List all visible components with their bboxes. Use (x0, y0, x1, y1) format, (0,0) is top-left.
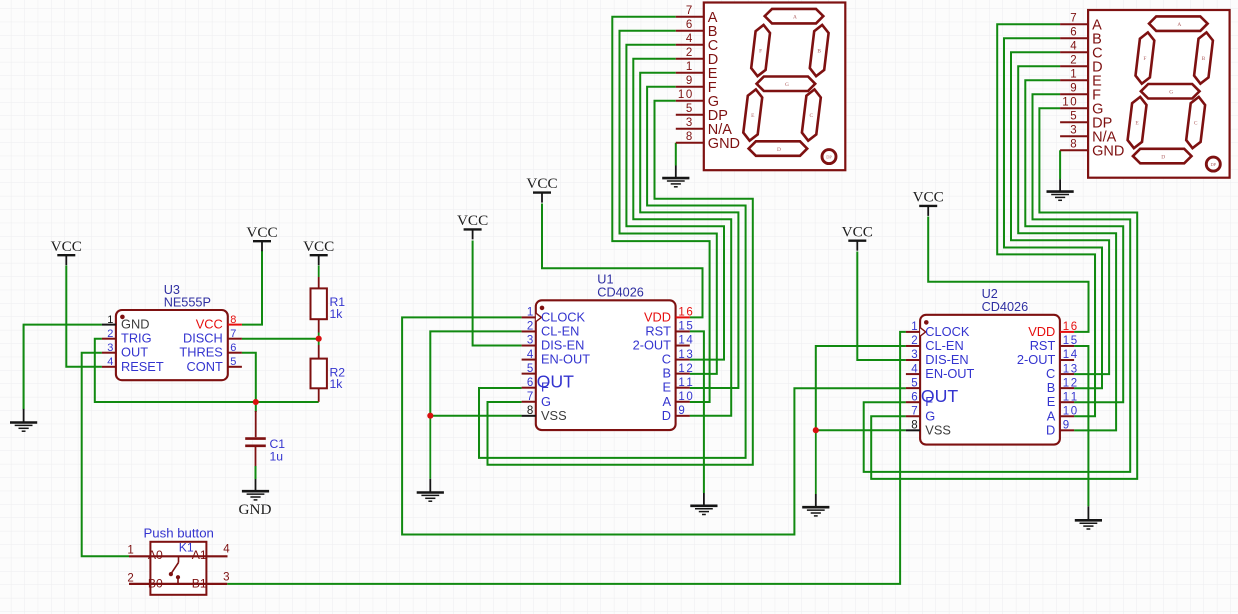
DS1 segment D (749, 141, 808, 156)
wire net TRIG: U3 pin2 to R2 bottom node (95, 339, 319, 402)
svg-text:1: 1 (1063, 377, 1069, 389)
svg-text:7: 7 (230, 328, 236, 340)
wire net OUT: U3 pin3 to push button K1 pin1 (82, 353, 129, 557)
svg-text:2: 2 (686, 47, 692, 59)
U1 right pin stubs (pins 16-9) (676, 317, 690, 415)
svg-text:1: 1 (678, 321, 684, 333)
DS2 segment D (1133, 149, 1192, 164)
svg-text:3: 3 (1070, 125, 1076, 137)
IC U1 CD4026 counter body (536, 300, 676, 430)
DS2 segment E (1128, 97, 1147, 148)
power flag VCC (to U1 VDD) (526, 175, 557, 202)
svg-text:C: C (810, 113, 814, 119)
svg-text:RST: RST (645, 323, 671, 338)
svg-text:6: 6 (1071, 321, 1077, 333)
wire net GND: U2 pin15 RST down to ground (1074, 346, 1088, 506)
svg-text:3: 3 (686, 349, 692, 361)
DS1 pin numbers (678, 5, 693, 143)
wire segment E: U2 pin11 to display DS2 pin E (1025, 80, 1123, 402)
svg-text:B0: B0 (148, 576, 163, 590)
wire net VCC: VCC flag to U3 pin4 RESET (66, 266, 102, 367)
svg-text:5: 5 (686, 321, 692, 333)
wire net VCC: VCC flag to U1 pin16 VDD (542, 204, 703, 318)
U1 pin-1 marker dot (540, 306, 545, 311)
wire net DISCH: U3 pin7 to R1/R2 junction (242, 338, 319, 340)
U1 left pin stubs (pins 1-8) (522, 317, 536, 415)
svg-text:1: 1 (1063, 335, 1069, 347)
DS2 pin stubs (1060, 24, 1088, 150)
svg-text:5: 5 (1071, 335, 1077, 347)
wire net GND: U1 pin8 VSS to ground node (430, 415, 521, 417)
wire net GND: display DS1 pin GND to ground (675, 143, 677, 166)
DS2 segment A (1149, 16, 1208, 31)
svg-text:D: D (777, 147, 781, 153)
DS1 segment C (802, 89, 821, 140)
wire segment G: U2 pin7 to display DS2 pin G (871, 108, 1137, 479)
svg-text:VCC: VCC (526, 175, 557, 192)
DS2 decimal point DP (1206, 157, 1220, 171)
wire segment C: U1 pin13 to display DS1 pin C (626, 45, 724, 360)
ground GND below C1 (242, 479, 269, 500)
svg-text:1: 1 (1063, 405, 1069, 417)
svg-text:THRES: THRES (179, 345, 222, 360)
svg-text:8: 8 (686, 131, 692, 143)
svg-text:VDD: VDD (644, 309, 671, 324)
svg-text:OUT: OUT (121, 345, 148, 360)
wire segment C: U2 pin13 to display DS2 pin C (1011, 52, 1109, 374)
svg-text:2: 2 (1071, 377, 1077, 389)
svg-text:DP: DP (826, 155, 832, 160)
svg-text:6: 6 (911, 391, 917, 403)
svg-text:0: 0 (1070, 97, 1076, 109)
svg-text:1: 1 (1063, 321, 1069, 333)
svg-text:4: 4 (686, 33, 693, 45)
DS1 pin stubs (676, 17, 704, 143)
svg-text:F: F (759, 49, 762, 55)
svg-text:7: 7 (1070, 13, 1076, 25)
svg-text:E: E (1047, 394, 1056, 409)
svg-text:A1: A1 (192, 548, 207, 562)
ground GND at U2 VSS (802, 430, 829, 516)
svg-text:4: 4 (223, 543, 230, 555)
junction node: TRIG/THRES/R2/C1 (253, 399, 259, 405)
U2 pin numbers (911, 321, 1078, 431)
svg-text:D: D (1046, 422, 1055, 437)
ground GND at U1 VSS (417, 416, 444, 502)
ground GND at U3 pin1 (10, 325, 37, 432)
svg-text:2: 2 (1070, 55, 1076, 67)
U2 left pin stubs (pins 1-8) (906, 332, 920, 430)
svg-text:1: 1 (527, 307, 533, 319)
svg-text:4: 4 (911, 363, 918, 375)
svg-text:7: 7 (527, 391, 533, 403)
svg-text:3: 3 (911, 349, 917, 361)
svg-text:1: 1 (911, 321, 917, 333)
wire net GND: U3 pin1 to ground (24, 325, 102, 410)
wire net GND: display DS2 pin GND to ground (1059, 150, 1061, 179)
U3 pin labels (121, 317, 223, 374)
U2 clock input triangle (pin 1) (920, 328, 926, 337)
wire segment E: U1 pin11 to display DS1 pin E (640, 73, 738, 388)
svg-text:9: 9 (678, 405, 684, 417)
svg-text:0: 0 (686, 89, 692, 101)
svg-text:A: A (1177, 22, 1181, 28)
svg-text:3: 3 (1071, 363, 1077, 375)
ground GND at U1 RST (690, 493, 717, 515)
svg-text:1: 1 (678, 377, 684, 389)
svg-text:4: 4 (527, 349, 534, 361)
svg-text:EN-OUT: EN-OUT (925, 366, 974, 381)
svg-text:VDD: VDD (1028, 324, 1055, 339)
svg-text:1: 1 (686, 377, 692, 389)
svg-text:1k: 1k (330, 377, 344, 391)
wire segment D: U2 pin9 to display DS2 pin D (1018, 66, 1116, 430)
DS1 segment E (743, 89, 762, 140)
svg-text:2: 2 (686, 363, 692, 375)
wire net GND: U2 pin2 CL-EN down to VSS node (816, 346, 906, 430)
U2 pin labels (925, 324, 1055, 438)
svg-text:2: 2 (527, 321, 533, 333)
DS2 segment G (1141, 84, 1200, 99)
ground GND at U2 RST (1075, 506, 1102, 529)
U2 right pin stubs (pins 16-9) (1060, 332, 1074, 430)
svg-text:1: 1 (1062, 97, 1068, 109)
svg-text:TRIG: TRIG (121, 331, 152, 346)
svg-text:3: 3 (527, 335, 533, 347)
svg-text:VCC: VCC (51, 238, 82, 255)
svg-text:G: G (925, 408, 935, 423)
svg-text:1: 1 (686, 61, 692, 73)
svg-text:C: C (1194, 121, 1198, 127)
svg-text:B: B (1047, 380, 1056, 395)
svg-text:CL-EN: CL-EN (925, 338, 963, 353)
svg-text:G: G (1169, 90, 1173, 96)
svg-text:GND: GND (239, 501, 272, 518)
U1 pin labels (541, 309, 671, 423)
K1 row A contact line (pins 1-4) (129, 555, 228, 557)
svg-text:1: 1 (107, 314, 113, 326)
svg-text:6: 6 (1070, 27, 1076, 39)
svg-text:VCC: VCC (842, 223, 873, 240)
svg-text:VCC: VCC (196, 317, 223, 332)
wire segment G: U1 pin7 to display DS1 pin G (488, 101, 753, 465)
svg-text:4: 4 (1070, 41, 1077, 53)
svg-text:1: 1 (1063, 349, 1069, 361)
svg-text:5: 5 (230, 356, 236, 368)
svg-text:3: 3 (686, 117, 692, 129)
K1 pin numbers (127, 543, 230, 584)
svg-text:8: 8 (911, 420, 917, 432)
svg-text:6: 6 (686, 307, 692, 319)
svg-text:RESET: RESET (121, 359, 164, 374)
wire segment F: U1 pin6 to display DS1 pin F (479, 87, 746, 458)
DS2 segment C (1186, 97, 1205, 148)
svg-text:9: 9 (1063, 420, 1069, 432)
svg-text:U2: U2 (982, 287, 998, 301)
svg-text:1: 1 (1063, 391, 1069, 403)
svg-text:C: C (662, 352, 671, 367)
K1 pin labels A0 A1 B0 B1 (148, 548, 207, 590)
svg-text:CONT: CONT (187, 359, 223, 374)
power flag VCC (to U2 VDD) (913, 189, 944, 216)
IC U2 CD4026 counter body (920, 315, 1060, 445)
svg-text:CL-EN: CL-EN (541, 323, 579, 338)
svg-text:D: D (662, 408, 671, 423)
U2 pin-1 marker dot (924, 320, 929, 325)
svg-text:2: 2 (107, 328, 113, 340)
svg-text:0: 0 (1071, 405, 1077, 417)
svg-text:VCC: VCC (457, 212, 488, 229)
svg-text:6: 6 (686, 19, 692, 31)
svg-text:8: 8 (230, 314, 236, 326)
wire net TRIG/THRES node to C1 top (255, 402, 257, 412)
svg-text:A: A (1047, 408, 1056, 423)
svg-text:A: A (662, 394, 671, 409)
resistor R2 leads (318, 339, 320, 402)
svg-text:1: 1 (678, 335, 684, 347)
wire net GND: U2 pin8 VSS to ground node (816, 429, 906, 431)
svg-text:OUT: OUT (537, 371, 575, 391)
DS1 segment B (810, 25, 829, 76)
svg-text:2: 2 (911, 335, 917, 347)
wire net GND: U1 pin15 RST down to ground (690, 331, 704, 493)
wire net VCC: VCC flag to U2 pin16 VDD (928, 217, 1088, 332)
wire net CLK1: U1 pin1 CLOCK to U2 pin5 OUT (carry) (402, 317, 906, 534)
svg-text:CD4026: CD4026 (982, 300, 1029, 314)
wire net VCC: U2 pin3 DIS-EN to VCC flag (857, 252, 906, 361)
svg-text:GND: GND (121, 317, 149, 332)
svg-text:NE555P: NE555P (164, 296, 211, 310)
svg-text:B: B (662, 366, 671, 381)
U3 left pin stubs (1-4) (102, 325, 116, 367)
svg-text:2-OUT: 2-OUT (1017, 352, 1056, 367)
ground GND at display DS2 (1047, 179, 1074, 200)
svg-text:G: G (785, 82, 789, 88)
svg-text:F: F (1143, 56, 1146, 62)
svg-text:3: 3 (223, 572, 229, 584)
svg-text:VCC: VCC (303, 238, 334, 255)
svg-text:5: 5 (911, 377, 917, 389)
DS1 segment A (765, 9, 824, 24)
svg-text:DISCH: DISCH (183, 331, 223, 346)
svg-text:4: 4 (686, 335, 693, 347)
U3 pin numbers (107, 314, 236, 368)
svg-text:OUT: OUT (921, 386, 959, 406)
svg-text:Push button: Push button (144, 526, 214, 541)
IC U3 NE555P body (116, 310, 228, 380)
svg-text:5: 5 (1070, 111, 1076, 123)
U1 pin numbers (527, 307, 694, 417)
svg-text:5: 5 (527, 363, 533, 375)
svg-text:1: 1 (678, 363, 684, 375)
svg-text:4: 4 (107, 356, 113, 368)
svg-text:9: 9 (686, 75, 692, 87)
svg-text:6: 6 (230, 342, 236, 354)
DS1 decimal point DP (822, 150, 836, 164)
wire net THRES: U3 pin6 down to node (242, 353, 256, 402)
svg-text:1: 1 (1063, 363, 1069, 375)
svg-text:DIS-EN: DIS-EN (925, 352, 968, 367)
wire segment F: U2 pin6 to display DS2 pin F (864, 94, 1130, 472)
power flag VCC (to U3 pin8) (246, 224, 277, 251)
power flag VCC (to U3 RESET) (51, 238, 82, 265)
U3 right pin stubs (8-5) (228, 325, 242, 367)
svg-text:GND: GND (708, 136, 740, 152)
svg-text:7: 7 (686, 5, 692, 17)
svg-text:C: C (1046, 366, 1055, 381)
svg-text:K1: K1 (179, 540, 194, 554)
K1 row B contact line (pins 2-3) (129, 583, 227, 585)
power flag VCC (to R1) (303, 238, 334, 265)
DS1 segment F (751, 25, 770, 76)
resistor R2 body (311, 359, 327, 389)
svg-text:6: 6 (527, 377, 533, 389)
svg-text:G: G (541, 394, 551, 409)
svg-text:1k: 1k (330, 307, 344, 321)
7-segment display DS2 body (1088, 10, 1230, 178)
wire net GND: U1 pin2 CL-EN down to VSS node (430, 331, 521, 415)
DS2 segment F (1136, 32, 1155, 83)
svg-text:2-OUT: 2-OUT (633, 338, 672, 353)
svg-text:1: 1 (1070, 69, 1076, 81)
svg-text:RST: RST (1030, 338, 1056, 353)
wire segment A: U2 pin10 to display DS2 pin A (997, 24, 1095, 416)
wire segment D: U1 pin9 to display DS1 pin D (633, 59, 731, 416)
svg-text:DIS-EN: DIS-EN (541, 338, 584, 353)
svg-text:1: 1 (127, 544, 133, 556)
svg-text:U1: U1 (597, 273, 613, 287)
svg-text:D: D (1161, 154, 1165, 160)
DS1 segment G (757, 77, 816, 92)
7-segment display DS1 body (704, 3, 846, 171)
svg-text:A0: A0 (148, 548, 163, 562)
svg-text:B: B (1202, 56, 1206, 62)
svg-text:1: 1 (678, 89, 684, 101)
U1 clock input triangle (pin 1) (536, 313, 542, 322)
wire net C1 bottom to ground (255, 466, 257, 479)
svg-text:VSS: VSS (925, 423, 951, 438)
ground GND at display DS1 (662, 166, 689, 187)
svg-text:E: E (662, 380, 671, 395)
svg-text:VCC: VCC (913, 189, 944, 206)
svg-text:1: 1 (678, 307, 684, 319)
push button K1 body (150, 542, 206, 595)
svg-text:A: A (793, 14, 797, 20)
capacitor C1 plates (245, 439, 266, 446)
svg-text:3: 3 (107, 342, 113, 354)
power flag VCC (to U2 DIS-EN) (842, 223, 873, 250)
DS1 pin labels (708, 10, 740, 152)
svg-text:5: 5 (686, 103, 692, 115)
svg-text:GND: GND (1092, 143, 1124, 159)
wire segment A: U1 pin10 to display DS1 pin A (612, 17, 709, 402)
svg-text:B1: B1 (192, 576, 207, 590)
svg-text:4: 4 (1071, 349, 1078, 361)
svg-text:8: 8 (527, 405, 533, 417)
svg-text:9: 9 (1070, 83, 1076, 95)
DS2 pin labels (1092, 17, 1124, 159)
svg-text:1: 1 (1071, 391, 1077, 403)
wire net BTN: K1 pin3 to U2 pin1 CLOCK (227, 332, 906, 584)
junction node: U2 VSS/CL-EN/ground (813, 427, 819, 433)
resistor R1 body (311, 288, 327, 319)
junction node: U1 VSS/CL-EN/ground (427, 413, 433, 419)
wire segment B: U2 pin12 to display DS2 pin B (1004, 38, 1102, 388)
DS2 pin numbers (1062, 13, 1077, 151)
svg-text:7: 7 (911, 405, 917, 417)
U3 pin-1 marker dot (120, 315, 125, 320)
capacitor C1 bottom lead (255, 447, 257, 466)
svg-text:1: 1 (678, 349, 684, 361)
svg-text:1: 1 (678, 391, 684, 403)
svg-text:DP: DP (1210, 162, 1216, 167)
svg-text:VCC: VCC (246, 224, 277, 241)
capacitor C1 top lead (255, 411, 257, 437)
DS2 segment B (1194, 32, 1213, 83)
wire net VCC: U3 pin8 to VCC flag (242, 251, 262, 325)
junction node: R1/R2/DISCH (316, 336, 322, 342)
svg-text:8: 8 (1070, 139, 1076, 151)
svg-text:CLOCK: CLOCK (925, 324, 970, 339)
svg-text:0: 0 (686, 391, 692, 403)
svg-text:2: 2 (127, 573, 133, 585)
svg-text:EN-OUT: EN-OUT (541, 352, 590, 367)
svg-text:VSS: VSS (541, 408, 567, 423)
svg-text:CLOCK: CLOCK (541, 309, 586, 324)
svg-text:1u: 1u (270, 450, 284, 464)
wire net VCC: U1 pin3 DIS-EN to VCC flag (473, 241, 522, 346)
K1 switch actuator (169, 556, 180, 584)
svg-text:B: B (817, 49, 821, 55)
wire segment B: U1 pin12 to display DS1 pin B (620, 31, 717, 374)
resistor R1 leads (318, 266, 320, 339)
svg-text:CD4026: CD4026 (597, 286, 644, 300)
power flag VCC (to U1 DIS-EN) (457, 212, 488, 239)
